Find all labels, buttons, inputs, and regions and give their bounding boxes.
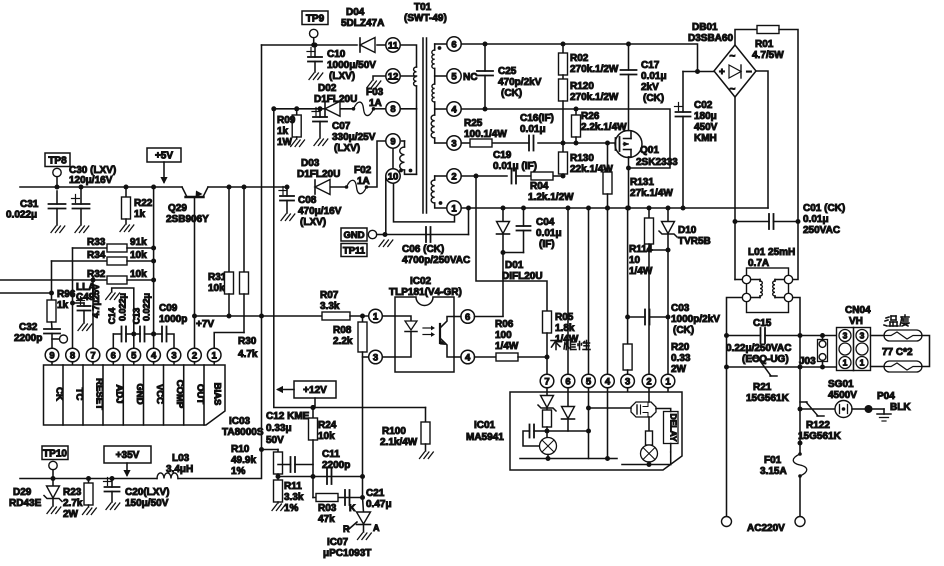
- svg-text:C14: C14: [107, 308, 117, 325]
- capacitor C17: [626, 42, 631, 47]
- svg-text:COMP: COMP: [174, 380, 185, 409]
- svg-text:C08: C08: [298, 195, 317, 206]
- transformer phase dots: [438, 46, 442, 50]
- svg-text:2: 2: [451, 171, 456, 182]
- svg-text:A: A: [373, 523, 380, 533]
- svg-text:C12 KME: C12 KME: [266, 411, 310, 422]
- svg-text:10k: 10k: [130, 250, 147, 261]
- fuse F02: [345, 185, 349, 189]
- svg-text:BIAS: BIAS: [212, 383, 223, 406]
- svg-text:470μ/16V: 470μ/16V: [298, 206, 342, 217]
- svg-text:450V: 450V: [694, 122, 718, 133]
- svg-text:1: 1: [212, 350, 218, 361]
- svg-text:C17: C17: [641, 60, 660, 71]
- svg-text:TP10: TP10: [43, 448, 67, 459]
- capacitor C19: [511, 169, 513, 184]
- capacitor C13: [131, 332, 136, 337]
- IC01 internal MOSFET octagon: [631, 402, 656, 417]
- svg-text:D04: D04: [346, 7, 365, 18]
- resistor R33: [73, 247, 108, 249]
- svg-text:BLK: BLK: [890, 402, 911, 413]
- svg-text:OUT: OUT: [195, 384, 206, 404]
- svg-text:(LXV): (LXV): [334, 143, 360, 154]
- svg-text:C20(LXV): C20(LXV): [125, 487, 169, 498]
- test point TP10: [42, 446, 68, 460]
- wire +35V rail: [20, 478, 157, 480]
- resistor R05: [543, 311, 552, 333]
- wire pin10 bottom to pin1: [394, 183, 455, 222]
- resistor R96: [0, 292, 52, 294]
- svg-text:D01: D01: [505, 260, 524, 271]
- resistor R131: [607, 143, 609, 172]
- svg-text:(CK): (CK): [501, 88, 522, 99]
- svg-text:C07: C07: [332, 121, 351, 132]
- test point TP11: [341, 244, 367, 257]
- IC01 pin circles: [540, 374, 554, 388]
- svg-text:1/4W: 1/4W: [629, 266, 653, 277]
- IC01 internal zener: [546, 392, 548, 396]
- IC01 internal row: [520, 458, 608, 460]
- svg-text:470p/2kV: 470p/2kV: [498, 77, 542, 88]
- resistor R130: [562, 143, 564, 152]
- svg-text:2: 2: [646, 376, 651, 387]
- IC01 internal amp 1: [540, 438, 557, 455]
- resistor R26: [574, 107, 579, 112]
- jumper J03: [820, 333, 825, 338]
- capacitor C02: [683, 71, 714, 73]
- svg-text:C16(IF): C16(IF): [520, 113, 554, 124]
- svg-text:50V: 50V: [266, 435, 284, 446]
- wire pin10 left edge to GND row: [385, 176, 387, 235]
- op-amp IC01 box MA5941: [510, 392, 682, 470]
- svg-text:GND: GND: [343, 230, 364, 241]
- svg-text:R06: R06: [495, 319, 514, 330]
- svg-text:D1FL20U: D1FL20U: [297, 169, 340, 180]
- svg-text:R05: R05: [555, 312, 574, 323]
- svg-text:TC: TC: [74, 388, 85, 401]
- svg-text:TA8000S: TA8000S: [222, 427, 264, 438]
- test point TP9: [302, 11, 328, 25]
- svg-text:1%: 1%: [284, 503, 299, 514]
- wire pin1 bus: [461, 207, 768, 209]
- wire IC01 pin columns: [567, 208, 569, 374]
- resistor R07: [262, 315, 323, 317]
- svg-text:1: 1: [843, 358, 848, 368]
- svg-text:IC07: IC07: [327, 537, 349, 548]
- wire pin4 row: [461, 109, 670, 168]
- svg-text:F02: F02: [354, 165, 372, 176]
- svg-text:7: 7: [90, 350, 95, 361]
- svg-text:1k: 1k: [57, 300, 69, 311]
- svg-text:R10: R10: [231, 444, 250, 455]
- svg-text:3.15A: 3.15A: [760, 466, 787, 477]
- wire pin9 to pin10: [392, 148, 394, 169]
- svg-text:C02: C02: [694, 100, 713, 111]
- resistor R120: [562, 75, 564, 79]
- svg-text:KMH: KMH: [694, 133, 717, 144]
- svg-text:2SK2333: 2SK2333: [636, 157, 678, 168]
- svg-text:8: 8: [390, 104, 395, 115]
- resistor R25: [470, 139, 492, 147]
- transformer winding 9-10: [402, 140, 405, 142]
- resistor R11: [274, 480, 283, 502]
- svg-text:3: 3: [860, 331, 865, 341]
- wire pin1 BIAS jog: [214, 333, 244, 349]
- transformer secondary winding 2-1: [435, 175, 447, 177]
- wire L01 right-bottom down AC line: [793, 298, 800, 444]
- svg-text:R08: R08: [333, 325, 352, 336]
- svg-text:2200p: 2200p: [14, 333, 42, 344]
- svg-text:TP11: TP11: [343, 246, 366, 257]
- svg-text:4700p/250VAC: 4700p/250VAC: [402, 255, 470, 266]
- svg-text:1: 1: [860, 358, 865, 368]
- resistor R32: [0, 279, 107, 281]
- IC01 internal capacitor: [534, 430, 547, 432]
- svg-text:R02: R02: [570, 53, 589, 64]
- svg-text:(CK): (CK): [673, 325, 694, 336]
- svg-text:2.7k: 2.7k: [63, 498, 83, 509]
- svg-text:2W: 2W: [671, 364, 687, 375]
- svg-text:6: 6: [465, 312, 470, 323]
- svg-text:0.022μ: 0.022μ: [142, 293, 152, 321]
- svg-text:3: 3: [625, 376, 630, 387]
- op-amp IC03 box TA8000S: [44, 365, 226, 425]
- svg-text:T01: T01: [414, 2, 432, 13]
- svg-text:0.01μ: 0.01μ: [536, 228, 562, 239]
- wire pin5 GND column to ground: [112, 288, 134, 348]
- capacitor C03: [625, 315, 630, 320]
- transistor Q29: [182, 187, 187, 197]
- svg-text:D29: D29: [13, 487, 32, 498]
- svg-text:2kV: 2kV: [641, 82, 659, 93]
- svg-text:9: 9: [390, 136, 395, 147]
- svg-text:R26: R26: [581, 111, 600, 122]
- svg-text:D03: D03: [301, 158, 320, 169]
- diode D02: [324, 102, 326, 116]
- wire GND row under transformer: [385, 234, 469, 236]
- svg-text:−: −: [746, 67, 752, 78]
- svg-text:15G561K: 15G561K: [798, 431, 842, 442]
- svg-text:F01: F01: [764, 455, 782, 466]
- svg-text:~: ~: [730, 84, 736, 95]
- svg-text:91k: 91k: [130, 237, 147, 248]
- label GND: [341, 228, 367, 241]
- svg-text:270k.1/2W: 270k.1/2W: [570, 64, 619, 75]
- svg-text:R20: R20: [671, 342, 690, 353]
- svg-text:R01: R01: [755, 39, 774, 50]
- wire pin8 column: [72, 248, 74, 348]
- label +12V: [294, 381, 336, 398]
- svg-text:11: 11: [388, 40, 399, 51]
- svg-text:5: 5: [586, 376, 592, 387]
- IC01 DELAY block: [664, 412, 679, 444]
- wire C06 riser to bus: [468, 208, 470, 235]
- terminal P04 BLK: [852, 408, 865, 410]
- svg-text:C03: C03: [671, 303, 690, 314]
- capacitor C10: [313, 43, 318, 48]
- svg-text:2SB906Y: 2SB906Y: [166, 214, 209, 225]
- svg-text:R130: R130: [570, 153, 594, 164]
- resistor R06: [475, 356, 497, 358]
- svg-text:1: 1: [373, 311, 379, 322]
- svg-text:4.7/5W: 4.7/5W: [752, 50, 784, 61]
- svg-text:270k.1/2W: 270k.1/2W: [570, 92, 619, 103]
- wire pin2 row: [461, 175, 507, 177]
- svg-text:3: 3: [451, 138, 456, 149]
- svg-text:3.4μH: 3.4μH: [166, 464, 193, 475]
- diode D04: [359, 38, 361, 52]
- svg-text:1W: 1W: [277, 137, 293, 148]
- svg-text:DELAY: DELAY: [669, 413, 679, 441]
- capacitor C11: [326, 469, 328, 484]
- label funensei (flame-proof): [551, 341, 590, 350]
- svg-text:0.01μ: 0.01μ: [520, 124, 546, 135]
- svg-text:NC: NC: [463, 72, 477, 83]
- svg-text:R24: R24: [318, 420, 337, 431]
- svg-text:R122: R122: [806, 420, 830, 431]
- svg-text:K: K: [349, 503, 356, 513]
- fuse F03: [352, 107, 356, 111]
- svg-text:(SWT-49): (SWT-49): [404, 13, 447, 24]
- svg-text:330μ/25V: 330μ/25V: [332, 132, 376, 143]
- svg-text:L01 25mH: L01 25mH: [748, 247, 795, 258]
- svg-text:(LXV): (LXV): [329, 71, 355, 82]
- svg-text:7: 7: [544, 376, 549, 387]
- IC01 internal resistor: [543, 410, 552, 427]
- svg-text:AC220V: AC220V: [747, 523, 785, 534]
- svg-text:R131: R131: [630, 177, 654, 188]
- wire main +5V rail: [20, 186, 182, 188]
- resistor R100: [425, 408, 427, 423]
- svg-text:VCC: VCC: [154, 384, 165, 404]
- svg-text:VH: VH: [849, 316, 863, 327]
- svg-text:ADJ: ADJ: [114, 384, 125, 403]
- svg-text:6: 6: [451, 39, 456, 50]
- svg-text:0.22μ/250VAC: 0.22μ/250VAC: [726, 343, 791, 354]
- test point TP8: [45, 153, 70, 167]
- resistor R22: [124, 185, 129, 190]
- svg-text:D1FL20U: D1FL20U: [314, 94, 357, 105]
- resistor R114: [647, 206, 652, 211]
- svg-text:3.3k: 3.3k: [284, 492, 304, 503]
- svg-text:(CK): (CK): [643, 93, 664, 104]
- svg-text:SG01: SG01: [828, 379, 854, 390]
- svg-text:J03: J03: [799, 356, 816, 367]
- svg-text:12: 12: [388, 71, 399, 82]
- svg-text:8: 8: [70, 350, 75, 361]
- wire top bus pin6: [461, 44, 697, 72]
- kanji do: [901, 316, 909, 318]
- wire R30 column: [261, 45, 263, 450]
- zener D10 TVR5B: [666, 206, 671, 211]
- svg-text:C04: C04: [536, 217, 555, 228]
- svg-text:+: +: [719, 67, 725, 78]
- svg-text:0.01μ (IF): 0.01μ (IF): [493, 161, 537, 172]
- svg-text:0.01μ: 0.01μ: [641, 71, 667, 82]
- MOSFET Q01 2SK2333: [615, 131, 642, 158]
- svg-text:(IF): (IF): [539, 239, 555, 250]
- resistor R04: [531, 172, 553, 180]
- svg-text:27k.1/4W: 27k.1/4W: [630, 188, 673, 199]
- resistor R09: [294, 106, 299, 111]
- svg-text:250VAC: 250VAC: [803, 225, 840, 236]
- svg-text:4500V: 4500V: [828, 390, 857, 401]
- svg-text:CK: CK: [54, 387, 65, 401]
- resistor R08: [360, 314, 365, 319]
- transformer primary winding 11-12-8: [400, 45, 416, 67]
- svg-text:4: 4: [451, 104, 457, 115]
- resistor R10: [262, 449, 279, 451]
- svg-text:CN04: CN04: [845, 305, 871, 316]
- wire VCC column pin4: [153, 187, 155, 348]
- svg-text:Q29: Q29: [168, 203, 187, 214]
- svg-text:R30: R30: [238, 336, 257, 347]
- svg-text:TP8: TP8: [48, 155, 67, 166]
- wire pin3 gate row: [461, 142, 470, 144]
- resistor R01: [735, 30, 757, 46]
- IC03 pin circles: [45, 348, 59, 362]
- svg-text:C09: C09: [159, 303, 178, 314]
- resistor R02: [561, 42, 566, 47]
- svg-text:4: 4: [605, 376, 611, 387]
- svg-text:+5V: +5V: [155, 151, 173, 162]
- svg-text:IC03: IC03: [229, 416, 251, 427]
- svg-text:R04: R04: [530, 181, 549, 192]
- svg-text:R100: R100: [382, 426, 406, 437]
- svg-text:0.022μ: 0.022μ: [118, 293, 128, 321]
- svg-text:10k: 10k: [130, 269, 147, 280]
- svg-text:(ECQ-UG): (ECQ-UG): [742, 354, 789, 365]
- svg-text:IC01: IC01: [474, 420, 496, 431]
- svg-text:D10: D10: [678, 225, 697, 236]
- svg-text:4: 4: [151, 350, 157, 361]
- capacitor C25: [483, 42, 488, 47]
- svg-text:μPC1093T: μPC1093T: [323, 548, 371, 559]
- svg-text:Q01: Q01: [640, 145, 659, 156]
- capacitor C14: [113, 333, 121, 335]
- svg-text:~: ~: [730, 51, 736, 62]
- svg-text:2W: 2W: [63, 509, 79, 520]
- svg-text:R09: R09: [277, 115, 296, 126]
- svg-text:MA5941: MA5941: [466, 432, 504, 443]
- svg-text:2.2k: 2.2k: [333, 336, 353, 347]
- wire Q29 base to +7V node: [194, 197, 196, 348]
- svg-text:R07: R07: [320, 290, 339, 301]
- svg-text:C06 (CK): C06 (CK): [402, 244, 444, 255]
- fuse F01: [798, 441, 803, 446]
- svg-text:49.9k: 49.9k: [231, 455, 256, 466]
- svg-text:120μ/16V: 120μ/16V: [69, 175, 113, 186]
- wire +7V row: [195, 315, 262, 317]
- resistor R20: [627, 208, 629, 344]
- svg-text:5DLZ47A: 5DLZ47A: [341, 18, 384, 29]
- svg-text:2: 2: [192, 350, 197, 361]
- wire lower row to IC07: [312, 477, 314, 498]
- opto arrows: [423, 327, 431, 329]
- svg-text:D02: D02: [318, 83, 337, 94]
- svg-text:RD43E: RD43E: [9, 498, 42, 509]
- svg-text:1000p: 1000p: [159, 314, 187, 325]
- svg-text:10k: 10k: [208, 283, 225, 294]
- svg-text:R11: R11: [284, 481, 302, 492]
- svg-text:C15: C15: [753, 318, 772, 329]
- svg-text:TP9: TP9: [306, 13, 325, 24]
- svg-text:DB01: DB01: [692, 22, 718, 33]
- svg-text:10: 10: [388, 171, 399, 182]
- transformer core: [422, 38, 424, 213]
- svg-text:2200p: 2200p: [322, 460, 350, 471]
- svg-text:1k: 1k: [134, 209, 146, 220]
- label +35V: [104, 446, 151, 463]
- svg-text:GND: GND: [134, 383, 145, 404]
- capacitor C07: [318, 106, 323, 111]
- svg-text:1/4W: 1/4W: [495, 341, 519, 352]
- svg-text:C21: C21: [366, 488, 385, 499]
- capacitor C16: [528, 136, 530, 151]
- svg-text:C25: C25: [498, 66, 517, 77]
- svg-text:D3SBA60: D3SBA60: [688, 33, 733, 44]
- svg-text:100.1/4W: 100.1/4W: [464, 129, 507, 140]
- svg-text:150μ/50V: 150μ/50V: [125, 498, 169, 509]
- svg-text:+35V: +35V: [116, 450, 140, 461]
- wire L01 left-bottom down AC line: [727, 298, 743, 522]
- svg-text:C32: C32: [19, 322, 38, 333]
- svg-text:R33: R33: [87, 237, 106, 248]
- svg-text:C13: C13: [132, 308, 142, 325]
- svg-text:1.2k.1/2W: 1.2k.1/2W: [528, 192, 574, 203]
- svg-text:1: 1: [451, 203, 457, 214]
- svg-text:C31: C31: [20, 199, 39, 210]
- svg-text:2.1k/4W: 2.1k/4W: [380, 437, 418, 448]
- svg-text:R22: R22: [134, 198, 153, 209]
- svg-text:1000p/2kV: 1000p/2kV: [671, 314, 720, 325]
- svg-text:10: 10: [629, 255, 641, 266]
- svg-text:1%: 1%: [231, 466, 246, 477]
- capacitor C15: [727, 335, 761, 337]
- svg-text:R120: R120: [570, 81, 594, 92]
- IC01 internal resistor 2: [648, 392, 650, 402]
- svg-text:5: 5: [131, 350, 137, 361]
- svg-text:R21: R21: [753, 382, 772, 393]
- svg-text:1.8k: 1.8k: [555, 323, 575, 334]
- svg-text:0.022μ: 0.022μ: [6, 210, 37, 221]
- svg-text:TVR5B: TVR5B: [678, 236, 711, 247]
- resistor R03: [316, 494, 338, 502]
- capacitor C06: [425, 227, 427, 242]
- svg-text:3: 3: [843, 331, 848, 341]
- resistor R23: [86, 476, 91, 481]
- svg-text:77 C*2: 77 C*2: [882, 347, 913, 358]
- wire +12V feed row: [274, 109, 426, 408]
- capacitor C21: [344, 490, 346, 505]
- capacitor C08: [285, 185, 290, 190]
- resistor R24: [312, 408, 314, 419]
- IC01 internal amp 2: [641, 445, 658, 462]
- svg-text:L03: L03: [172, 453, 190, 464]
- svg-text:0.33μ: 0.33μ: [266, 423, 292, 434]
- svg-text:10k: 10k: [318, 431, 335, 442]
- opto LED: [395, 316, 411, 321]
- varistor R21: [727, 366, 837, 368]
- transformer pin circles: [386, 38, 400, 52]
- svg-text:1A: 1A: [369, 98, 382, 109]
- transformer secondary winding 6-5-4-3: [435, 43, 447, 45]
- svg-text:IC02: IC02: [410, 276, 432, 287]
- svg-text:1: 1: [665, 376, 671, 387]
- svg-text:(LXV): (LXV): [300, 217, 326, 228]
- wire divider row: [278, 476, 363, 478]
- svg-text:R: R: [343, 524, 350, 534]
